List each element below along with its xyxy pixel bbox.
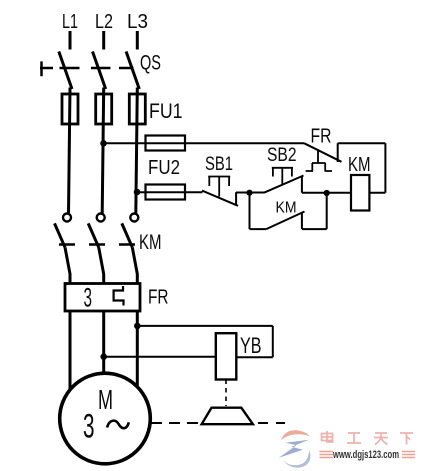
wire pole 1 box to motor	[69, 311, 72, 391]
svg-text:L3: L3	[127, 11, 148, 33]
wire corner down	[384, 143, 386, 193]
QS linkage end bar	[40, 61, 43, 76]
fuse FU2 upper	[146, 136, 186, 151]
dashed shaft right of shoe	[258, 422, 285, 424]
wire L1 stub	[69, 31, 72, 50]
watermark char 天	[374, 433, 388, 445]
wire SB2 to node B	[302, 192, 327, 194]
watermark char 电	[322, 431, 334, 442]
wire pole 1 blade to FR box	[65, 247, 70, 283]
node A	[246, 190, 252, 196]
watermark banner right bars	[402, 452, 415, 458]
svg-text:YB: YB	[240, 333, 262, 358]
wire node A down	[249, 193, 251, 229]
wire KM aux to riser	[302, 228, 327, 230]
pushbutton SB1 blade (NC)	[202, 191, 238, 206]
contact KM aux blade (NO)	[266, 212, 304, 230]
wire node B to coil	[327, 192, 351, 194]
wire pole 3 blade to FR box	[132, 247, 137, 283]
node B	[324, 190, 330, 196]
wire brake left to coil	[104, 356, 216, 358]
node on L2 (control tap)	[100, 140, 107, 147]
wire L3 main	[136, 88, 138, 214]
pushbutton SB1 right stub	[235, 192, 237, 205]
node on pole 3 (brake tap)	[134, 323, 141, 330]
svg-text:KM: KM	[139, 231, 162, 254]
fuse FU2 lower	[146, 185, 186, 200]
pushbutton SB2 blade (NO)	[264, 176, 304, 193]
wire riser up to node B	[326, 193, 328, 229]
wire brake right down	[272, 326, 274, 357]
wire brake top	[137, 325, 272, 327]
watermark char 下	[400, 433, 413, 445]
contact KM aux right stub	[301, 214, 303, 230]
motor tilde	[107, 421, 129, 429]
svg-text:www.dgjs123.com: www.dgjs123.com	[332, 449, 399, 461]
switch QS pole 2 blade	[93, 52, 106, 90]
wire L1 main	[69, 88, 71, 214]
dashed shaft motor to shoe	[151, 422, 201, 424]
node on L3 (control tap)	[134, 189, 141, 196]
fuse FU1 pole 1	[62, 94, 78, 124]
svg-text:L2: L2	[95, 11, 113, 33]
fuse FU1 pole 3	[129, 94, 145, 124]
heater element symbol	[114, 286, 124, 306]
contact KM main pole 3 terminal circle	[130, 214, 138, 222]
wire corner to coil	[369, 192, 385, 194]
wire FR to corner	[338, 142, 386, 144]
wire L3 stub	[136, 31, 139, 50]
svg-text:3: 3	[83, 408, 95, 446]
switch QS pole 1 blade	[59, 52, 72, 90]
contact KM main pole 1 blade	[55, 223, 66, 247]
wire brake right to coil	[236, 356, 272, 358]
node on pole 2 (brake tap)	[100, 353, 107, 360]
wire to KM aux contact	[250, 228, 267, 230]
wire pole 3 box to motor	[136, 311, 139, 387]
contact KM main pole 3 blade	[122, 223, 133, 247]
svg-text:FR: FR	[148, 287, 169, 309]
dashed link coil to brake shoe	[225, 380, 227, 407]
svg-text:FU1: FU1	[149, 100, 183, 123]
QS linkage dashed line	[40, 67, 134, 70]
pushbutton SB2 right stub	[301, 177, 303, 193]
svg-text:KM: KM	[276, 200, 297, 217]
watermark banner left bars	[320, 452, 334, 458]
fuse FU1 pole 2	[96, 94, 112, 124]
contact KM main pole 2 terminal circle	[97, 214, 105, 222]
motor M circle	[60, 373, 151, 464]
brake shoe	[202, 408, 253, 425]
contact KM main pole 1 terminal circle	[63, 214, 71, 222]
watermark logo red swoosh	[281, 430, 310, 440]
svg-text:M: M	[98, 384, 113, 415]
KM linkage dashed line	[59, 243, 135, 246]
svg-text:KM: KM	[348, 154, 371, 176]
wire SB1 to node A	[236, 192, 264, 194]
svg-text:SB1: SB1	[205, 154, 233, 175]
pushbutton SB2 cap	[272, 168, 293, 185]
wire pole 2 box to motor	[102, 311, 105, 375]
svg-text:SB2: SB2	[267, 145, 297, 166]
svg-text:QS: QS	[140, 52, 161, 75]
wire pole 2 blade to FR box	[99, 247, 104, 283]
pushbutton SB1 cap	[208, 177, 230, 197]
wire L2 tap to FU2a and on to FR	[104, 142, 305, 144]
relay FR contact blade (NC)	[304, 143, 342, 162]
wire L3 tap through FU2b to SB1	[137, 191, 203, 193]
wire L2 main	[102, 88, 104, 214]
svg-text:L1: L1	[62, 11, 78, 33]
svg-text:FR: FR	[311, 126, 332, 148]
brake coil YB	[216, 333, 237, 379]
svg-text:3: 3	[84, 283, 93, 313]
contact KM main pole 2 blade	[88, 223, 99, 247]
watermark logo blue bolt	[279, 440, 309, 458]
svg-text:FU2: FU2	[148, 157, 180, 179]
switch QS pole 3 blade	[126, 52, 139, 90]
watermark logo blue bottom arc	[283, 450, 311, 468]
coil KM	[351, 175, 369, 211]
relay FR right stub	[337, 143, 339, 162]
wire L2 stub	[102, 31, 105, 50]
thermal relay FR heater box	[65, 284, 140, 312]
relay FR thermal actuator	[306, 151, 332, 172]
watermark char 工	[347, 433, 361, 443]
